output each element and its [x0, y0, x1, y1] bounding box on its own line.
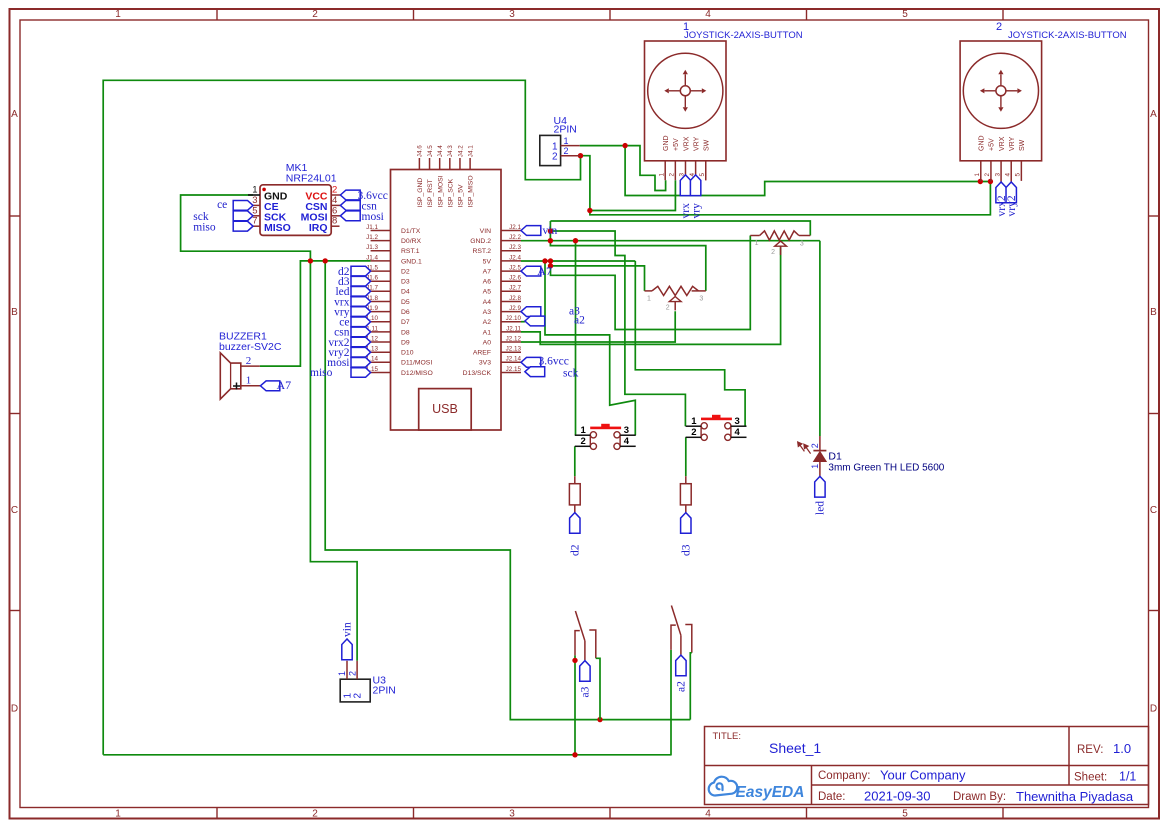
svg-text:J2.13: J2.13: [506, 346, 522, 353]
svg-text:A7: A7: [483, 269, 492, 276]
svg-text:USB: USB: [432, 402, 458, 416]
junction: [587, 208, 592, 213]
junction: [988, 179, 993, 184]
svg-text:B: B: [1150, 307, 1157, 318]
svg-text:1: 1: [658, 173, 665, 177]
switch a2 left contact: [671, 625, 676, 650]
MCU right pin J2.10 stub: [501, 321, 521, 323]
svg-text:2: 2: [564, 146, 569, 156]
svg-text:A: A: [1150, 109, 1157, 120]
svg-text:vry: vry: [690, 203, 702, 219]
svg-text:VRX: VRX: [999, 136, 1006, 151]
svg-text:led: led: [815, 501, 827, 515]
svg-text:A4: A4: [483, 299, 492, 306]
net flag ce at MCU J1.10: [351, 317, 371, 327]
MCU right pin J2.7 stub: [501, 290, 521, 292]
net flag vry: [690, 175, 700, 196]
net flag d3 at MCU J1.6: [351, 276, 371, 286]
svg-text:1: 1: [246, 374, 252, 386]
svg-text:VIN: VIN: [480, 228, 491, 235]
wire A2 stub to flag: [521, 321, 525, 323]
svg-text:Thewnitha Piyadasa: Thewnitha Piyadasa: [1016, 789, 1134, 804]
junction: [548, 263, 553, 268]
joystick 2 pin 1 stub: [980, 161, 982, 182]
MCU right pin J2.11 stub: [501, 331, 521, 333]
svg-text:2: 2: [332, 185, 337, 196]
svg-text:1: 1: [755, 240, 759, 247]
svg-text:2: 2: [669, 173, 676, 177]
svg-text:D2: D2: [401, 269, 410, 276]
svg-text:SW: SW: [704, 139, 711, 151]
button 2 pin 4 line: [731, 436, 747, 438]
title block: [705, 727, 1149, 805]
wire to pot1 pin3: [550, 221, 810, 236]
svg-text:Company:: Company:: [818, 770, 870, 782]
svg-text:J2.9: J2.9: [509, 305, 521, 312]
net flag a3: [580, 661, 590, 682]
net flag miso at MCU J1.15: [351, 368, 371, 378]
svg-text:vry2: vry2: [1006, 195, 1018, 216]
button 1 pin 1 line: [575, 434, 591, 436]
svg-text:A: A: [11, 109, 18, 120]
wire NRF pin1 GND to node: [181, 195, 311, 261]
wire bottom loop: [103, 754, 671, 756]
wire GND node down to U3 pin2: [310, 261, 357, 661]
wire spine x550 to pot2 pin3: [550, 221, 705, 291]
switch a3 lever pivot pin: [584, 641, 586, 660]
MK1 right pin stub 4: [331, 204, 340, 206]
svg-text:VRX: VRX: [683, 136, 690, 151]
svg-text:D5: D5: [401, 299, 410, 306]
MCU right pin J2.14 stub: [501, 361, 521, 363]
buzzer BUZZER1 buzzer-SV2C: [220, 353, 241, 399]
wire GND.2 down to LED D1: [819, 241, 821, 436]
MCU right pin J2.1 stub: [501, 230, 521, 232]
MCU microcontroller body: [391, 170, 502, 431]
MCU left pin J1.12 stub: [371, 341, 391, 343]
net flag vin at MCU J2.1: [521, 226, 541, 236]
svg-text:1/1: 1/1: [1119, 770, 1136, 784]
joystick 1 pin 2 stub: [674, 161, 676, 180]
svg-text:GND.1: GND.1: [401, 258, 422, 265]
joystick 2 pin 5 stub: [1020, 161, 1022, 181]
frame tick bottom: [806, 808, 808, 819]
svg-text:3.6vcc: 3.6vcc: [539, 356, 569, 368]
MCU left pin J1.10 stub: [371, 321, 391, 323]
svg-text:sck: sck: [563, 368, 579, 380]
MCU top pin J4.6 stub: [418, 158, 420, 170]
svg-text:ISP_GND: ISP_GND: [417, 178, 424, 208]
wire node to joystick2 pins 1-2: [625, 146, 990, 196]
svg-text:miso: miso: [193, 221, 216, 233]
frame tick bottom: [413, 808, 415, 819]
svg-text:D6: D6: [401, 309, 410, 316]
wire to pot2 pin1: [551, 261, 645, 291]
svg-text:Date:: Date:: [818, 791, 846, 803]
buzzer pin 2 stub: [241, 365, 260, 367]
svg-text:J2.14: J2.14: [506, 356, 522, 363]
MK1 left pin stub 3: [253, 204, 260, 206]
wire U4 pin1 to joystick1 pin1: [580, 146, 666, 191]
potentiometer 2 leads: [645, 290, 653, 292]
button 1 pin 3 line: [620, 434, 636, 436]
net flag d3: [681, 513, 691, 534]
joystick 1 pin 1 stub: [664, 161, 666, 180]
svg-text:D7: D7: [401, 319, 410, 326]
net flag 3.6vcc at MCU J2.14: [521, 357, 541, 367]
MK1 pin1 stub (GND): [248, 194, 260, 196]
wire button1 pin2 to resistor: [574, 446, 576, 476]
svg-text:Sheet_1: Sheet_1: [769, 740, 821, 756]
svg-text:3: 3: [252, 195, 257, 206]
svg-text:J1.4: J1.4: [366, 254, 378, 261]
svg-text:3: 3: [994, 173, 1001, 177]
svg-text:1: 1: [337, 671, 347, 676]
net flag A7 at MCU J2.5: [521, 266, 541, 276]
MK1 left pin stub 7: [253, 225, 260, 227]
svg-text:1: 1: [581, 425, 587, 436]
net flag d2: [570, 513, 580, 534]
frame tick top: [806, 9, 808, 20]
svg-text:JOYSTICK-2AXIS-BUTTON: JOYSTICK-2AXIS-BUTTON: [1008, 30, 1127, 41]
junction: [548, 238, 553, 243]
svg-text:1: 1: [115, 9, 121, 20]
svg-text:1.0: 1.0: [1113, 741, 1131, 756]
joystick 1 pin 4 stub: [695, 161, 697, 175]
wire switch a3 right contact to rail: [596, 658, 600, 719]
wire big loop left/top to U4 pin2: [103, 80, 580, 755]
svg-text:1: 1: [974, 173, 981, 177]
potentiometer 2: [652, 286, 698, 295]
frame tick left: [10, 413, 21, 415]
joystick 1 pin 3 stub: [684, 161, 686, 175]
svg-text:J2.2: J2.2: [509, 234, 521, 241]
svg-text:D1/TX: D1/TX: [401, 228, 421, 235]
MCU right pin J2.13 stub: [501, 351, 521, 353]
MCU right pin J2.4 stub: [501, 260, 521, 262]
LED D1 3mm Green TH LED 5600: [819, 436, 821, 451]
U4 pin 2 stub: [561, 155, 581, 157]
frame tick bottom: [1002, 808, 1004, 819]
wire 5V row: [521, 260, 635, 262]
MCU left pin J1.15 stub: [371, 372, 391, 374]
MCU left pin J1.8 stub: [371, 301, 391, 303]
button 2 pin 1 line: [686, 425, 702, 427]
svg-text:2: 2: [810, 443, 820, 448]
MCU left pin J1.9 stub: [371, 311, 391, 313]
svg-text:J2.1: J2.1: [509, 224, 521, 231]
svg-text:ISP_MISO: ISP_MISO: [468, 175, 475, 207]
MCU left pin J1.1 stub: [371, 230, 391, 232]
svg-text:5: 5: [902, 809, 908, 820]
potentiometer 1 leads: [750, 235, 759, 237]
svg-text:J2.6: J2.6: [509, 275, 521, 282]
wire GND node to switches bottom rail: [325, 261, 690, 720]
MCU left pin J1.14 stub: [371, 361, 391, 363]
buzzer pin 1 stub: [241, 385, 261, 387]
connector U3 2PIN: [340, 679, 370, 702]
svg-text:RST.1: RST.1: [401, 248, 420, 255]
frame tick bottom: [609, 808, 611, 819]
MCU left pin J1.4 stub: [371, 260, 391, 262]
wire 5V to button2 pin3: [635, 261, 745, 426]
resistor to net d2: [574, 476, 576, 484]
svg-text:A3: A3: [483, 309, 492, 316]
net flag miso at MK1: [233, 221, 253, 231]
svg-text:2: 2: [996, 21, 1002, 33]
svg-text:5: 5: [902, 9, 908, 20]
net flag a2 at MCU J2.10: [525, 316, 545, 326]
svg-text:Drawn By:: Drawn By:: [953, 791, 1006, 803]
svg-text:3mm Green TH LED 5600: 3mm Green TH LED 5600: [828, 463, 944, 474]
MK1 left pin stub 5: [253, 215, 260, 217]
junction: [542, 258, 547, 263]
svg-text:1: 1: [115, 809, 121, 820]
svg-text:2: 2: [691, 427, 696, 438]
wire GND.2 row: [521, 240, 820, 242]
joystick 2 pin 3 stub: [1000, 161, 1002, 182]
svg-text:5: 5: [252, 205, 257, 216]
net flag csn at MCU J1.11: [351, 327, 371, 337]
svg-text:6: 6: [332, 205, 337, 216]
svg-text:2PIN: 2PIN: [373, 685, 396, 697]
svg-text:J4.5: J4.5: [427, 145, 434, 157]
svg-text:A5: A5: [483, 289, 492, 296]
svg-text:a2: a2: [574, 315, 585, 327]
LED emission arrows: [798, 442, 811, 454]
frame tick top: [1002, 9, 1004, 20]
svg-text:J1.2: J1.2: [366, 234, 378, 241]
svg-text:ISP_5V: ISP_5V: [458, 184, 465, 208]
svg-text:1: 1: [810, 464, 820, 469]
frame tick top: [609, 9, 611, 20]
svg-text:d2: d2: [570, 544, 582, 556]
svg-text:2PIN: 2PIN: [554, 124, 577, 136]
wire VIN branch to button2 pin1: [550, 231, 685, 426]
svg-text:1: 1: [564, 136, 569, 146]
MCU top pin J4.1 stub: [469, 158, 471, 170]
svg-text:3: 3: [509, 9, 515, 20]
svg-text:2: 2: [312, 9, 318, 20]
net flag sck at MK1: [233, 211, 253, 221]
joystick 1 pin 5 stub: [705, 161, 707, 181]
MCU left pin J1.5 stub: [371, 270, 391, 272]
svg-text:C: C: [1150, 505, 1157, 516]
svg-text:TITLE:: TITLE:: [713, 731, 742, 742]
junction: [597, 717, 602, 722]
MCU right pin J2.12 stub: [501, 341, 521, 343]
svg-text:D8: D8: [401, 329, 410, 336]
svg-text:4: 4: [705, 9, 711, 20]
MCU right pin J2.3 stub: [501, 250, 521, 252]
junction: [572, 658, 577, 663]
svg-text:2: 2: [666, 304, 670, 311]
MCU USB connector box: [419, 389, 472, 430]
svg-text:J4.4: J4.4: [437, 145, 444, 157]
svg-text:B: B: [11, 307, 18, 318]
junction: [548, 258, 553, 263]
net flag mosi at MK1: [340, 211, 360, 221]
frame tick top: [413, 9, 415, 20]
wire switch a2 right contact to rail: [690, 653, 692, 720]
svg-text:J2.5: J2.5: [509, 265, 521, 272]
svg-text:ce: ce: [217, 199, 227, 211]
net flag vrx2 at MCU J1.12: [351, 337, 371, 347]
svg-text:3: 3: [699, 296, 703, 303]
svg-text:D12/MISO: D12/MISO: [401, 370, 433, 377]
MCU right pin J2.8 stub: [501, 301, 521, 303]
MCU top pin J4.3 stub: [449, 158, 451, 170]
svg-text:5: 5: [1015, 173, 1022, 177]
buzzer plus sign: [233, 383, 240, 390]
EasyEDA logo: [709, 777, 738, 796]
svg-text:RST.2: RST.2: [472, 248, 491, 255]
frame tick right: [1149, 215, 1160, 217]
MCU right pin J2.5 stub: [501, 270, 521, 272]
U4 pin 1 stub: [561, 145, 580, 147]
svg-text:J2.8: J2.8: [509, 295, 521, 302]
net flag a2: [676, 655, 686, 676]
junction: [978, 179, 983, 184]
svg-text:D: D: [11, 704, 18, 715]
svg-text:7: 7: [252, 216, 257, 227]
MCU left pin J1.7 stub: [371, 290, 391, 292]
svg-text:ISP_RST: ISP_RST: [427, 179, 434, 207]
MCU top pin J4.2 stub: [459, 158, 461, 170]
svg-text:1: 1: [252, 185, 257, 196]
svg-text:J4.3: J4.3: [447, 145, 454, 157]
switch a2 lever pivot pin: [680, 635, 682, 654]
svg-text:2021-09-30: 2021-09-30: [864, 789, 931, 804]
svg-text:A1: A1: [483, 329, 492, 336]
svg-text:J2.4: J2.4: [509, 254, 521, 261]
net flag vrx: [680, 175, 690, 196]
U3 pin 2 stub: [356, 661, 358, 679]
module MK1 NRF24L01: [260, 185, 331, 236]
frame tick bottom: [216, 808, 218, 819]
svg-text:J2.7: J2.7: [509, 285, 521, 292]
svg-text:J1.1: J1.1: [366, 224, 378, 231]
svg-text:EasyEDA: EasyEDA: [736, 784, 805, 801]
svg-text:D10: D10: [401, 350, 414, 357]
junction: [578, 153, 583, 158]
svg-text:2: 2: [347, 671, 357, 676]
svg-text:SW: SW: [1019, 139, 1026, 151]
svg-text:2: 2: [552, 151, 558, 162]
MCU left pin J1.2 stub: [371, 240, 391, 242]
junction: [548, 228, 553, 233]
button 1 pin 4 line: [620, 445, 636, 447]
push button 2: [701, 418, 732, 421]
svg-text:1: 1: [691, 416, 697, 427]
svg-text:D13/SCK: D13/SCK: [463, 370, 492, 377]
svg-text:GND: GND: [663, 135, 670, 151]
svg-text:J2.3: J2.3: [509, 244, 521, 251]
svg-text:GND: GND: [979, 135, 986, 151]
svg-text:D: D: [1150, 704, 1157, 715]
svg-text:A7: A7: [537, 264, 552, 278]
svg-text:4: 4: [705, 809, 711, 820]
joystick module 2 JOYSTICK-2AXIS-BUTTON: [960, 41, 1042, 161]
svg-text:2: 2: [771, 249, 775, 256]
svg-text:1: 1: [647, 295, 651, 302]
joystick module 1 JOYSTICK-2AXIS-BUTTON: [645, 41, 727, 161]
svg-text:5: 5: [699, 173, 706, 177]
svg-text:Your Company: Your Company: [880, 768, 966, 783]
wire GND.2 down to button1 pin1: [575, 241, 577, 436]
push button 1: [590, 427, 621, 430]
svg-text:2: 2: [581, 436, 586, 447]
net flag csn at MK1: [340, 201, 360, 211]
svg-text:D4: D4: [401, 289, 410, 296]
switch a2 lever: [671, 606, 681, 636]
svg-text:5V: 5V: [483, 258, 492, 265]
MCU left pin J1.13 stub: [371, 351, 391, 353]
svg-text:D9: D9: [401, 339, 410, 346]
net flag a3 at MCU J2.9: [521, 307, 541, 317]
svg-text:J1.3: J1.3: [366, 244, 378, 251]
svg-text:J4.2: J4.2: [457, 145, 464, 157]
frame tick left: [10, 610, 21, 612]
wire to pot1 pin1: [551, 236, 751, 330]
svg-text:3: 3: [509, 809, 515, 820]
connector U4 2PIN: [540, 135, 561, 165]
svg-text:A6: A6: [483, 279, 492, 286]
junction: [308, 258, 313, 263]
MCU left pin J1.3 stub: [371, 250, 391, 252]
net flag 3.6vcc at MK1: [340, 190, 360, 200]
wire U4 pin2 to joystick2 pin2: [581, 156, 991, 215]
joystick 2 pin 2 stub: [990, 161, 992, 182]
svg-text:J2.11: J2.11: [506, 325, 521, 332]
MK1 right pin stub 2: [331, 194, 340, 196]
net flag led at MCU J1.7: [351, 287, 371, 297]
net flag sck at MCU J2.15: [525, 367, 545, 377]
svg-text:IRQ: IRQ: [309, 222, 328, 234]
svg-text:d3: d3: [681, 544, 693, 556]
svg-text:J4.1: J4.1: [467, 145, 474, 157]
MCU left pin J1.6 stub: [371, 280, 391, 282]
net flag vrx at MCU J1.8: [351, 297, 371, 307]
svg-text:C: C: [11, 505, 18, 516]
net flag A7 at buzzer pin 1: [260, 381, 279, 391]
MK1 pin1 marker dot: [262, 188, 266, 192]
svg-text:Sheet:: Sheet:: [1074, 772, 1107, 784]
svg-text:mosi: mosi: [362, 211, 384, 223]
svg-text:D0/RX: D0/RX: [401, 238, 421, 245]
svg-text:2: 2: [312, 809, 318, 820]
frame tick right: [1149, 413, 1160, 415]
svg-text:NRF24L01: NRF24L01: [286, 173, 337, 185]
junction: [573, 238, 578, 243]
wire buzzer pin2 to GND.1: [260, 261, 371, 366]
svg-text:VRY: VRY: [1009, 136, 1016, 151]
svg-text:A7: A7: [277, 378, 292, 392]
svg-text:4: 4: [735, 427, 741, 438]
svg-text:a3: a3: [580, 686, 592, 697]
svg-text:A2: A2: [483, 319, 492, 326]
joystick 2 pin 4 stub: [1010, 161, 1012, 182]
switch a2 right contact bracket: [685, 625, 692, 653]
svg-text:D3: D3: [401, 279, 410, 286]
svg-text:D1: D1: [828, 451, 842, 463]
net flag ce at MK1: [233, 201, 253, 211]
svg-text:J2.12: J2.12: [506, 335, 522, 342]
MCU left pin J1.11 stub: [371, 331, 391, 333]
svg-text:MISO: MISO: [264, 222, 291, 234]
frame tick right: [1149, 610, 1160, 612]
svg-text:+5V: +5V: [673, 138, 680, 151]
